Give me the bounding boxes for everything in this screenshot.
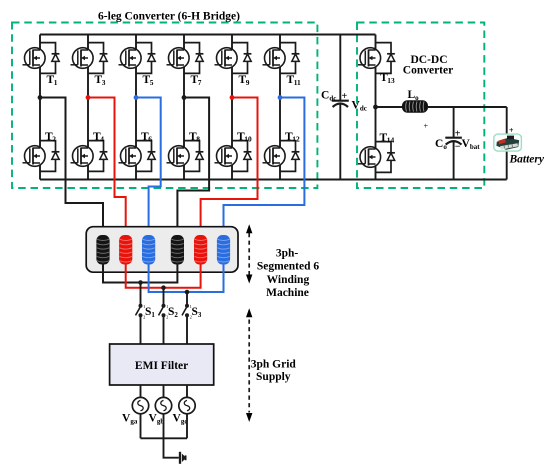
wire: winding tap to switch S2 <box>163 288 165 306</box>
node: leg 3 midpoint <box>134 95 139 100</box>
node: tap junction 2 <box>161 285 166 290</box>
EMI filter box <box>110 344 214 385</box>
svg-text:−: − <box>455 142 461 153</box>
svg-text:Converter: Converter <box>403 65 453 77</box>
wire: source Vgb to neutral bus <box>163 414 165 439</box>
svg-text:+: + <box>342 91 348 102</box>
wire: winding tap to switch S1 <box>140 283 142 306</box>
DC-DC converter dashed boundary box <box>357 23 484 189</box>
svg-text:Battery: Battery <box>509 154 545 166</box>
svg-text:Winding: Winding <box>267 274 310 286</box>
svg-text:6-leg Converter (6-H Bridge): 6-leg Converter (6-H Bridge) <box>98 11 240 23</box>
wire: winding 3-6 bottom link (blue) <box>149 263 224 292</box>
wire: leg 3 output to winding 3 (blue) <box>136 98 161 237</box>
svg-text:Segmented 6: Segmented 6 <box>257 261 320 273</box>
title: DC-DC Converter <box>403 54 453 77</box>
inductor: winding coil 3 (blue) <box>142 235 155 265</box>
winding machine housing box <box>86 227 238 273</box>
wire: winding 2-5 bottom link (red) <box>126 263 201 288</box>
wire: leg 4 output to winding 4 (black) <box>177 98 209 237</box>
inductor: winding coil 6 (blue) <box>217 235 230 265</box>
wire: midpoint to Lo <box>376 106 403 108</box>
inductor: winding coil 4 (black) <box>171 235 184 265</box>
node: leg 2 midpoint <box>86 95 91 100</box>
inductor: winding coil 2 (red) <box>119 235 132 265</box>
switch S2 <box>159 304 179 320</box>
wire: leg 2 output to winding 2 (red) <box>88 98 126 237</box>
node: tap junction 1 <box>138 280 143 285</box>
node: leg 5 midpoint <box>230 95 235 100</box>
wire: converter leg 5 <box>231 35 233 180</box>
node: leg 6 midpoint <box>278 95 283 100</box>
ground <box>180 452 186 464</box>
wire: bottom DC bus <box>40 179 507 181</box>
node: leg 1 midpoint <box>38 95 43 100</box>
wire: leg 5 output to winding 5 (red) <box>201 98 258 237</box>
svg-text:Machine: Machine <box>266 287 309 299</box>
transistor T6 <box>119 131 156 172</box>
wire: leg 1 output to winding 1 (black) <box>40 98 103 237</box>
wire: Lo to battery branch <box>428 106 507 108</box>
label: 3ph-Segmented 6 Winding Machine <box>257 248 320 300</box>
6-leg converter dashed boundary box <box>12 23 317 189</box>
wire: switch S2 to EMI filter <box>163 315 165 344</box>
wire: winding 1-4 bottom link (black) <box>103 263 177 283</box>
transistor T8 <box>167 131 204 172</box>
node: tap junction 3 <box>185 290 190 295</box>
AC source Vgc <box>173 397 196 425</box>
wire: top DC bus <box>40 34 376 36</box>
wire: leg 6 output to winding 6 (blue) <box>224 98 305 237</box>
wire: converter leg 6 <box>279 35 281 180</box>
annotation: grid supply dashed arrow <box>246 308 252 422</box>
wire: EMI filter to source Vgc <box>186 385 188 398</box>
transistor T1 <box>23 43 60 87</box>
transistor T10 <box>215 131 252 172</box>
transistor T14 <box>358 132 395 173</box>
transistor T5 <box>119 43 156 87</box>
wire: Co branch lower <box>453 141 455 180</box>
svg-text:+: + <box>424 122 429 131</box>
svg-text:Supply: Supply <box>256 371 291 383</box>
switch S1 <box>136 304 156 320</box>
wire: neutral to ground <box>164 438 179 457</box>
node: DC-DC midpoint junction <box>373 105 378 110</box>
transistor T7 <box>167 43 204 87</box>
svg-text:EMI Filter: EMI Filter <box>135 360 188 372</box>
transistor T3 <box>71 43 108 87</box>
wire: winding tap to switch S3 <box>186 292 188 306</box>
transistor T12 <box>263 131 300 172</box>
svg-text:3ph Grid: 3ph Grid <box>251 359 297 371</box>
wire: EMI filter to source Vga <box>140 385 142 398</box>
transistor T2 <box>23 131 60 172</box>
transistor T4 <box>71 131 108 172</box>
capacitor Cdc <box>321 90 349 108</box>
wire: converter leg 4 <box>183 35 185 180</box>
transistor T9 <box>215 43 252 87</box>
wire: source Vgc to neutral bus <box>186 414 188 439</box>
wire: source Vga to neutral bus <box>140 414 142 439</box>
annotation: machine extent dashed arrow <box>246 224 252 283</box>
switch S3 <box>182 304 202 320</box>
wire: converter leg 3 <box>135 35 137 180</box>
battery icon <box>494 134 522 151</box>
wire: Co branch upper <box>453 107 455 138</box>
wire: switch S3 to EMI filter <box>186 315 188 344</box>
wire: DC-DC converter leg <box>375 35 377 180</box>
wire: converter leg 1 <box>39 35 41 180</box>
svg-text:+: + <box>455 129 461 140</box>
capacitor Co <box>435 129 462 153</box>
svg-text:3ph-: 3ph- <box>276 248 299 260</box>
wire: EMI filter to source Vgb <box>163 385 165 398</box>
inductor: winding coil 5 (red) <box>194 235 207 265</box>
label: 3ph Grid Supply <box>251 359 297 384</box>
wire: battery branch <box>506 107 508 180</box>
node: leg 4 midpoint <box>182 95 187 100</box>
transistor T11 <box>263 43 302 87</box>
wire: neutral bus <box>141 437 188 439</box>
wire: Cdc branch lower <box>339 104 341 180</box>
wire: switch S1 to EMI filter <box>140 315 142 344</box>
AC source Vga <box>122 397 149 425</box>
wire: Cdc branch upper <box>339 35 341 101</box>
wire: converter leg 2 <box>87 35 89 180</box>
inductor Lo <box>402 89 428 113</box>
AC source Vgb <box>149 397 172 425</box>
transistor T13 <box>358 43 395 85</box>
inductor: winding coil 1 (black) <box>96 235 109 265</box>
